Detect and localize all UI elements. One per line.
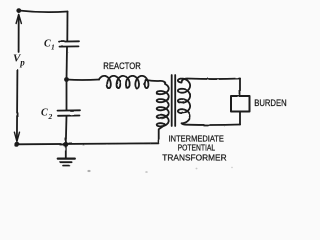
scan speck [87,170,90,172]
ground [58,147,75,166]
capacitor C2 [58,110,81,116]
wire right vertical to C1 [66,12,68,42]
wire secondary top to burden [182,79,241,83]
node bottom left [14,142,19,147]
transformer primary winding [157,84,169,126]
svg-text:2: 2 [48,112,53,121]
wire C1 to junction [66,47,69,80]
svg-text:C: C [41,108,48,119]
svg-text:POTENTIAL: POTENTIAL [178,143,216,153]
node top left [16,8,21,13]
wire secondary bottom to burden [182,123,241,125]
transformer secondary winding [178,79,190,124]
svg-text:REACTOR: REACTOR [103,61,141,71]
node junction mid [64,77,69,82]
capacitor C1 [59,41,79,46]
svg-text:1: 1 [51,43,55,52]
wire reactor to transformer primary [146,80,166,84]
wire C2 to ground junction [65,116,68,144]
scan speck [231,167,233,168]
wire junction to C2 [66,80,68,111]
wire junction to reactor [67,79,100,82]
scan speck [145,171,148,173]
scan speck [196,168,198,170]
burden box [231,96,250,112]
wire primary bottom down [159,125,165,143]
arrow Vp bottom [14,70,19,141]
svg-text:C: C [44,39,51,50]
svg-text:p: p [19,57,25,67]
wire burden right vertical [239,79,241,125]
wire top horizontal [19,11,68,13]
wire bottom horizontal [17,143,159,144]
reactor L1 [99,76,148,88]
arrow Vp top [16,14,21,52]
node bottom ground junction [63,142,68,147]
svg-text:BURDEN: BURDEN [254,98,287,109]
svg-text:TRANSFORMER: TRANSFORMER [162,153,226,163]
transformer core [171,75,173,126]
